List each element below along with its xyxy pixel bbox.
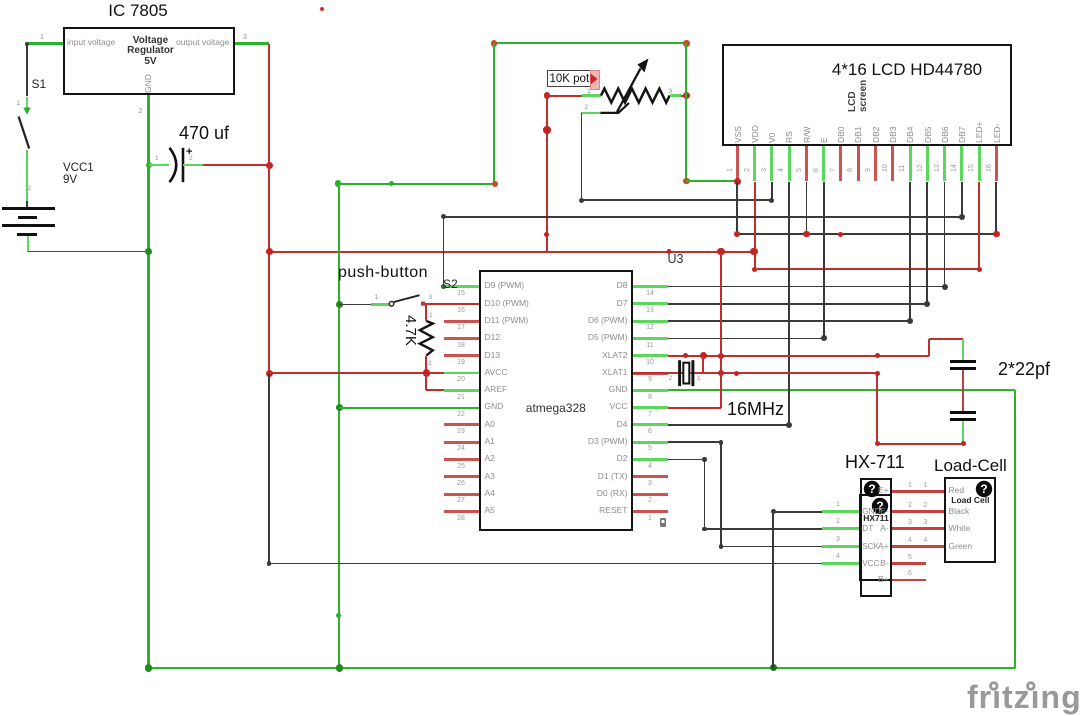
wire HX711-LoadCell row 1 (892, 490, 944, 493)
node joint HXgnd corner (771, 509, 776, 514)
label IC1 pin number 2 (139, 108, 143, 116)
node junction 5V rail left (266, 248, 273, 255)
label IC1 pin number 3 (243, 34, 247, 42)
node junction 5V-AVCC (266, 370, 273, 377)
capacitor C3 22pf plate1 (950, 411, 977, 414)
label U3 pin 14 D8 (538, 281, 628, 291)
wire pot pin1 stub (582, 94, 601, 96)
resistor R1 4.7K symbol (412, 319, 442, 361)
label LoadCell pin number 2 (924, 502, 928, 510)
wire S2 pin1 black (339, 304, 370, 306)
wire ground bottom rail (149, 667, 1015, 669)
label HX711 pin number 1 (836, 501, 840, 509)
label U3 (668, 252, 684, 266)
label LCD pin number 4 (rotated) (778, 168, 786, 172)
label LCD pin DB1 (rotated) (854, 126, 864, 143)
pin U3 D12 stub (unconnected) (444, 337, 479, 340)
label HX711 pin number 5 (908, 554, 912, 562)
wire RS down to D4 row (788, 182, 790, 425)
node joint V0 corner (769, 198, 774, 203)
label LoadCell pin number 1 (924, 482, 928, 490)
wire HX711-LoadCell row 2 (892, 510, 944, 513)
node joint RS-D4 (786, 422, 792, 428)
pin U3 D6 (PWM) stub (633, 320, 668, 323)
label HX711 pin VCC (862, 559, 879, 568)
label U3 pin number 14 (638, 290, 662, 298)
wire XLAT1 red (633, 372, 878, 374)
label U3 value atmega328 (506, 402, 606, 416)
label U3 pin number 8 (638, 394, 662, 402)
label U3 pin 22 GND (485, 402, 504, 412)
wire D3 to SCK part2 (721, 546, 822, 548)
wire LCD ground bus y234 (737, 233, 996, 235)
label HX711 value (861, 514, 891, 524)
label LCD pin number 13 (rotated) (934, 164, 942, 172)
label U3 pin number 9 (638, 376, 662, 384)
label U3 pin 3 D1 (TX) (538, 472, 628, 482)
pin U3 A0 stub (unconnected) (444, 423, 479, 426)
label LCD pin number 5 (rotated) (796, 168, 804, 172)
label U3 pin 7 VCC (538, 402, 628, 412)
node junction bottom rail left (145, 664, 153, 672)
wire crystal pin1 up (702, 356, 704, 373)
label HX711 right pin number 2 (908, 502, 912, 510)
wire to C2 top (929, 338, 964, 340)
label U3 pin 12 D6 (PWM) (538, 316, 628, 326)
wire C1 pin2 to 5V (203, 164, 270, 166)
wire XLAT2 red (668, 355, 929, 357)
label IC1 value "IC 7805" (85, 1, 191, 21)
node joint D9 corner (441, 214, 446, 219)
pin U3 D13 stub (unconnected) (444, 354, 479, 357)
pin U3 A4 stub (unconnected) (444, 493, 479, 496)
label LCD pin number 1 (rotated) (727, 168, 735, 172)
potentiometer 10K symbol (580, 50, 700, 120)
wire to AREF (426, 389, 444, 391)
wire VCC vertical to 5V rail (720, 252, 722, 408)
wire D6 to DB4 (668, 320, 910, 322)
label LCD pin RS (rotated) (785, 131, 795, 143)
label LCD pin VSS (rotated) (734, 125, 744, 142)
label U3 pin 2 D0 (RX) (538, 489, 628, 499)
node joint HXvcc corner (267, 561, 272, 566)
pin U3 D11 (PWM) stub (unconnected) (444, 320, 479, 323)
wire 5V vertical from IC1 out (268, 44, 270, 373)
pin U3 XLAT1 stub (633, 372, 668, 375)
label HX711 pin number 6 (908, 570, 912, 578)
label U3 pin 9 XLAT1 (538, 368, 628, 378)
label U3 pin 16 D10 (PWM) (485, 299, 529, 309)
wire C1 pin2 green (183, 164, 203, 166)
label LCD pin DB5 (rotated) (924, 126, 934, 143)
label LCD pin R/W (rotated) (803, 126, 813, 143)
label U3 pin number 25 (449, 463, 473, 471)
label U3 pin number 12 (638, 324, 662, 332)
node junction RW-bus (803, 231, 810, 238)
wire LCD pin 10 DB3 stub (891, 146, 894, 181)
pin U3 D4 stub (633, 423, 668, 426)
wire gnd vertical x686 to VSS (685, 43, 687, 181)
label LoadCell pin Black (949, 507, 970, 517)
node junction bottom rail hx711 (770, 664, 777, 671)
label IC1 pin output voltage (176, 38, 229, 48)
capacitor C2 22pf plate2 (950, 367, 977, 370)
label S2 (443, 278, 458, 292)
label LCD pin number 11 (rotated) (899, 164, 907, 171)
label HX711 pin number 4 (836, 553, 840, 561)
wire C2 top stub (962, 339, 964, 360)
label VCC1 pin minus (29, 239, 31, 246)
wire DB6 down to D8 row (944, 182, 946, 287)
battery VCC1 plate + long (2, 207, 55, 210)
node joint GND-C1 (146, 162, 152, 168)
label U3 pin number 23 (449, 428, 473, 436)
label LCD pin DB3 (rotated) (889, 126, 899, 143)
label U3 pin number 6 (638, 428, 662, 436)
wire LCD pin 11 DB4 stub (909, 146, 912, 181)
node joint xlat1 mid (734, 371, 739, 376)
node junction pot3-gnd? vertical (683, 92, 690, 99)
label HX711 pin A+ (859, 542, 889, 552)
label U3 pin number 10 (638, 359, 662, 367)
label C1 value "470 uf" (179, 123, 229, 144)
icon HX711 mystery ?2 (871, 497, 889, 515)
label U3 pin number 13 (638, 307, 662, 315)
wire ground vertical x339 (338, 184, 340, 668)
wire HX711 left pin 3 stub (822, 545, 859, 548)
label HX711 right pin number 4 (908, 537, 912, 545)
node joint xlat2-vcc cross (718, 353, 724, 359)
label U3 pin number 7 (638, 411, 662, 419)
label pot pin number 3 (669, 88, 673, 95)
label U3 pin number 15 (449, 290, 473, 298)
node joint C3 corner (961, 441, 966, 446)
label R1 pin number 1 (429, 312, 433, 319)
wire U3 AVCC stub (444, 372, 479, 375)
crystal Y1 16MHz symbol (672, 358, 702, 390)
wire HX711 left pin 4 stub (822, 562, 859, 565)
wire LCD pin 6 E stub (822, 146, 825, 181)
wire S2 pin1 stub (371, 303, 389, 305)
wire VCC red (668, 407, 721, 409)
label LCD pin number 15 (rotated) (968, 164, 976, 172)
wire VSS down (736, 182, 738, 235)
wire HX711 VCC horizontal (269, 563, 822, 565)
label LCD pin E (rotated) (820, 137, 830, 143)
icon LoadCell mystery ? (975, 480, 993, 498)
label U3 pin 25 A2 (485, 454, 495, 464)
wire 5V to AVCC (269, 372, 444, 374)
label LCD pin DB6 (rotated) (941, 126, 951, 143)
label LCD pin LED- (rotated) (993, 123, 1003, 142)
wire LCD pin 1 VSS stub (736, 146, 739, 181)
wire IC1 pin1 input (27, 42, 63, 44)
wire S1 pin1 stub (26, 97, 28, 111)
label U3 pin 21 AREF (485, 385, 508, 395)
wire E down to D5 row (823, 182, 825, 339)
label IC1 pin input voltage (67, 38, 115, 48)
node joint y183 left (335, 180, 342, 187)
label U3 pin number 26 (449, 480, 473, 488)
label Y1 pin number 2 (669, 375, 673, 382)
icon reset tiny (658, 517, 668, 529)
label U3 pin 10 XLAT2 (538, 351, 628, 361)
wire HX711 left pin 2 stub (822, 527, 859, 530)
label LoadCell pin Red (949, 486, 965, 496)
label LoadCell pin number 4 (924, 537, 928, 545)
wire VDD down (754, 182, 756, 270)
wire DB5 down to D7 row (926, 182, 928, 304)
label U3 pin number 4 (638, 463, 662, 471)
wire C3 bottom left (877, 443, 963, 445)
pin U3 RESET stub (633, 510, 668, 513)
label LCD pin number 9 (rotated) (865, 168, 873, 172)
label LCD pin number 3 (rotated) (761, 168, 769, 172)
node joint top rail left (491, 40, 498, 47)
label LCD pin LED+ (rotated) (975, 121, 985, 143)
wire C1 pin1 (149, 164, 169, 166)
label R1 pin number 2 (428, 360, 432, 367)
node junction button-gnd (336, 301, 343, 308)
label LoadCell value (945, 496, 996, 506)
lcd display body (722, 44, 1012, 146)
wire LCD pin 7 DB0 stub (839, 146, 842, 181)
wire D3 vertical (720, 442, 722, 546)
label Y1 pin number 1 (697, 375, 701, 382)
wire HX711 GND vertical to rail (772, 512, 774, 668)
label LCD pin number 7 (rotated) (830, 168, 838, 172)
label U3 pin 28 A5 (485, 506, 495, 516)
logo fritzing (967, 679, 1080, 716)
wire xlat2 up right (928, 339, 930, 356)
node joint pot vertical (543, 126, 551, 134)
capacitor C1 470uf symbol (162, 143, 202, 189)
wire pot wiper stub (581, 112, 600, 114)
wire pot wiper vertical (581, 113, 583, 200)
label LoadCell pin Green (949, 542, 973, 552)
wire HX711 VCC from 5V: vertical (268, 373, 270, 564)
wire LCD pin 14 DB7 stub (960, 146, 963, 181)
pin U3 XLAT2 stub (633, 354, 668, 357)
module HX711 inner body (859, 494, 892, 581)
wire LCD pin 12 DB5 stub (926, 146, 929, 181)
label LoadCell pin number 3 (924, 519, 928, 527)
label S1 (32, 78, 47, 92)
label U3 pin number 3 (638, 480, 662, 488)
label U3 pin 15 D9 (PWM) (485, 281, 525, 291)
label U3 pin number 16 (449, 307, 473, 315)
wire ground vertical x494 (493, 43, 495, 183)
wire HX711 left pin 1 stub (822, 510, 859, 513)
label U3 pin 27 A4 (485, 489, 495, 499)
sensor LoadCell body (944, 477, 996, 564)
label HX711 pin SCK (862, 542, 879, 551)
wire LCD pin 8 DB1 stub (857, 146, 860, 181)
pin U3 A3 stub (unconnected) (444, 475, 479, 478)
wire ground from atmega GND pin8 (668, 389, 1015, 391)
wire resistor bottom to AVCC row (425, 356, 427, 374)
label U3 pin 1 RESET (538, 506, 628, 516)
pin U3 A5 stub (unconnected) (444, 510, 479, 513)
node junction crystal pin1 (700, 352, 708, 360)
label LCD pin VDD (rotated) (751, 125, 761, 143)
switch S1 symbol (0, 100, 50, 160)
wire U3 D9 stub (444, 285, 480, 288)
label S1 pin number 2 (28, 185, 32, 192)
label LCD pin DB4 (rotated) (906, 126, 916, 143)
wire ground top rail (494, 42, 686, 44)
node joint C3 corner2 (875, 441, 880, 446)
node junction VSS (734, 178, 741, 185)
wire D9 vertical (443, 217, 445, 287)
node joint VDD corner (752, 267, 757, 272)
label U3 pin 19 D13 (485, 351, 501, 361)
label U3 pin 11 D5 (PWM) (538, 333, 628, 343)
wire DB4 down to D6 row (909, 182, 911, 322)
label HX711 right pin number 1 (908, 482, 912, 490)
label Y1 value 16MHz (727, 399, 784, 420)
node joint xlat2 b (875, 353, 880, 358)
node joint y183 mid (389, 181, 394, 186)
wire R/W down (806, 182, 808, 235)
label LCD pin DB0 (rotated) (837, 126, 847, 143)
node joint D3 corner2 (719, 544, 724, 549)
label HX-711 title (845, 452, 905, 473)
node joint D3 corner (719, 440, 724, 445)
label LCD pin number 16 (rotated) (986, 164, 994, 172)
label U3 pin 13 D7 (538, 299, 628, 309)
node joint pot vertical low (544, 232, 549, 237)
label U3 pin 18 D12 (485, 333, 501, 343)
node joint D2 corner2 (702, 527, 707, 532)
wire pot pin1 vertical down (546, 96, 548, 252)
wire battery minus stub (27, 236, 29, 252)
wire pot pin3 stub (670, 94, 681, 96)
node joint pot pin1 (544, 92, 551, 99)
label U3 pin 4 D2 (538, 454, 628, 464)
node joint top rail right (683, 40, 690, 47)
node junction C1-5V (266, 162, 273, 169)
label HX711 pin E- (859, 507, 889, 517)
label LCD pin number 8 (rotated) (847, 168, 855, 172)
label S2 pin number 1 (375, 294, 379, 301)
wire HX711-LoadCell row 3 (892, 527, 944, 530)
label LCD pin DB2 (rotated) (872, 126, 882, 143)
pin U3 D8 stub (633, 285, 668, 288)
node joint DB4-D6 (907, 318, 913, 324)
label LCD pin number 10 (rotated) (882, 164, 890, 172)
label U3 pin number 11 (638, 342, 662, 350)
node joint xlat1-vcc cross (718, 370, 724, 376)
pin HX711 B- stub (892, 562, 926, 565)
wire V0 down (771, 182, 773, 201)
label HX711 pin DT (862, 524, 873, 533)
label U3 pin 20 AVCC (485, 368, 508, 378)
label S2 pin number 3 (429, 294, 433, 301)
node joint DB5-D7 (924, 301, 930, 307)
pin U3 A2 stub (unconnected) (444, 458, 479, 461)
node joint S1-IC1 (25, 42, 29, 46)
node ground joint at regulator GND (145, 248, 153, 256)
label S1 pin number 1 (17, 100, 21, 107)
label U3 pin number 18 (449, 342, 473, 350)
label R1 value 4.7K (rotated) (402, 315, 419, 346)
pin U3 D2 stub (633, 458, 668, 461)
label pot pin number 2 (585, 104, 589, 111)
wire pot pin3 red (681, 95, 687, 97)
label U3 pin 17 D11 (PWM) (485, 316, 529, 326)
pushbutton S2 symbol (386, 292, 426, 308)
wire pot pin1 red (547, 95, 583, 97)
wire VDD to LED+ (755, 268, 980, 270)
label U3 pin 5 D3 (PWM) (538, 437, 628, 447)
battery VCC1 plate short (18, 216, 38, 219)
label U3 pin number 28 (449, 515, 473, 523)
label HX711 pin B+ (859, 575, 889, 585)
label U3 pin number 1 (638, 515, 662, 523)
node junction 5V-VDD (750, 248, 758, 256)
wire D2 vertical (704, 460, 706, 529)
wire U3 D10 red wire from S2 (424, 303, 479, 305)
wire HX711 GND black (773, 511, 822, 513)
wire C3 up to XLAT1 (876, 373, 878, 444)
label U3 pin 24 A1 (485, 437, 495, 447)
node joint xlat2 a (683, 353, 688, 358)
capacitor C3 22pf plate2 (950, 418, 977, 421)
label IC1 pin number 1 (40, 34, 44, 42)
label C2C3 value 2*22pf (998, 359, 1050, 380)
battery VCC1 plate - short (17, 233, 37, 236)
label U3 pin 23 A0 (485, 420, 495, 430)
wire C3 bottom stub (962, 421, 964, 444)
label C1 pin number 1 (155, 155, 159, 162)
node junction atmega-gnd22 (336, 404, 343, 411)
label pot value box "10K pot" (547, 70, 594, 88)
pin U3 D3 (PWM) stub (633, 441, 668, 444)
label VCC1 value (63, 162, 94, 187)
wire ground horizontal y183 (338, 183, 494, 185)
wire 5V rail horizontal (269, 251, 754, 253)
label U3 pin number 17 (449, 324, 473, 332)
label HX711 pin GND (862, 507, 880, 516)
wire LCD pin 5 R/W stub (805, 146, 808, 181)
wire LCD pin 3 V0 stub (770, 146, 773, 181)
wire HX711-LoadCell row 4 (892, 545, 944, 548)
node joint DB6-D8 (942, 284, 948, 290)
label IC1 description (122, 36, 179, 68)
label LCD pin number 6 (rotated) (813, 168, 821, 172)
node joint gnd x339 low (336, 613, 341, 618)
wire C2-C3 mid (962, 370, 964, 411)
wire LED- down (995, 182, 997, 235)
wire LED+ down (978, 182, 980, 270)
label LCD title (807, 60, 1007, 80)
pin U3 D7 stub (633, 302, 668, 305)
label U3 pin 6 D4 (538, 420, 628, 430)
label LCD pin V0 (rotated) (768, 132, 778, 142)
wire IC1 GND down to ground rail (147, 95, 150, 668)
label LCD pin number 12 (rotated) (917, 164, 925, 172)
wire LCD pin 13 DB6 stub (943, 146, 946, 181)
node joint D2 corner (702, 457, 707, 462)
pin U3 A1 stub (unconnected) (444, 441, 479, 444)
wire LCD pin 15 LED+ stub (978, 146, 981, 181)
node junction R1-AVCC (423, 369, 431, 377)
node joint D9-S2wire (441, 284, 446, 289)
wire D8 to DB6 (668, 286, 945, 288)
label LCD pin number 14 (rotated) (951, 164, 959, 172)
wire IC1 pin3 output (235, 42, 269, 44)
